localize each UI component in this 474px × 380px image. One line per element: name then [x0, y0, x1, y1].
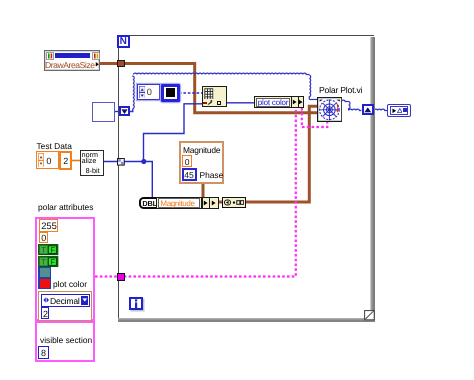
numeric constant 0 (blue) — [137, 84, 160, 100]
for loop border: bottom gray bar — [118, 318, 376, 322]
for loop border: right gray bar — [370, 37, 375, 322]
plot color label — [53, 279, 87, 289]
wire: picture constant to left shift register (blue) — [114, 111, 119, 113]
picture indicator terminal — [387, 104, 411, 117]
DrawAreaSize slider right glyph — [92, 52, 100, 60]
right shift register (up arrow) — [362, 104, 375, 115]
inner cluster tan frame — [38, 291, 92, 321]
teal color box — [40, 268, 50, 277]
tunnel: polar attributes through loop border (magenta) — [117, 273, 125, 281]
wire: junction up-branch to pixel subVI lower input (blue) — [144, 104, 203, 162]
plot color unbundle node — [254, 96, 304, 108]
DrawAreaSize slider bar — [55, 53, 90, 59]
wire: pixel subVI to plot color node (blue) — [227, 102, 254, 104]
wire: bundle to replace-array node (brown) — [217, 201, 223, 204]
node junction dot — [141, 159, 146, 164]
boolean constant 1 — [38, 244, 58, 255]
subVI: draw pixmap icon — [202, 86, 227, 107]
svg-text:T: T — [42, 258, 47, 267]
Magnitude/Phase cluster constant — [179, 141, 225, 184]
0 numeric constant — [39, 232, 48, 243]
wire: colorbox to pixel subVI (blue dashed) — [179, 92, 202, 94]
wire: picture wire horizontal run to Polar Plot.vi (scallop blue) — [134, 73, 310, 74]
polar attributes label — [38, 202, 93, 212]
color box constant (black) — [161, 84, 180, 102]
Decimal ring dropdown — [41, 294, 90, 307]
left shift register (down arrow) — [119, 106, 131, 116]
visible section label — [40, 335, 92, 345]
wire: normalize output through tunnel to junction (blue) — [104, 161, 144, 163]
for loop count terminal N — [117, 35, 130, 48]
DrawAreaSize cluster control — [44, 50, 100, 71]
Polar Plot.vi icon — [317, 97, 342, 122]
2 numeric constant (blue) — [41, 307, 49, 319]
Polar Plot.vi label — [319, 85, 362, 95]
for loop iteration terminal i — [129, 297, 143, 311]
normalize 8-bit subVI — [80, 150, 104, 176]
DrawAreaSize text — [45, 60, 95, 70]
polar attributes cluster border (pink) — [35, 217, 95, 322]
bundle by name node (Magnitude) — [156, 197, 219, 210]
wire: junction down-branch to DBL conversion (blue) — [144, 162, 153, 198]
color box pair frame (blue) — [38, 267, 51, 290]
red color box (plot color) — [40, 279, 50, 288]
boolean constant 2 — [38, 256, 58, 267]
255 numeric constant — [39, 219, 58, 232]
visible section cluster border (pink) — [35, 321, 95, 362]
tunnel: test data through loop border (checkered) — [117, 158, 125, 166]
svg-text:F: F — [51, 246, 56, 255]
wire: plot color value to Polar Plot.vi bottom input (pink dashed) — [302, 108, 328, 127]
8 numeric constant (blue) — [38, 346, 49, 359]
DBL conversion bullet — [139, 197, 162, 209]
for loop grow handle bottom-right — [364, 310, 375, 321]
wire: Magnitude cluster to Bundle node (brown) — [202, 183, 205, 198]
svg-text:F: F — [51, 258, 56, 267]
wire: replace-array output up to Polar Plot.vi top input (brown) — [245, 106, 317, 202]
tunnel: brown wire through loop border — [117, 60, 125, 68]
wire: right shift register to picture indicator (scallop blue) — [374, 109, 387, 110]
Test Data array index/element control — [36, 151, 59, 169]
svg-text:T: T — [42, 246, 47, 255]
wire: polar attributes cluster to plot color node (pink dashed) — [95, 108, 296, 277]
empty picture constant — [92, 102, 115, 122]
for loop border: left — [118, 35, 119, 319]
wire: picture wire shift register up (scallop blue) — [133, 76, 134, 109]
wire: picture wire down into Polar Plot.vi top-left input — [309, 75, 310, 100]
wire: Polar Plot.vi picture out (scallop blue) — [342, 100, 349, 101]
wire: Test Data to normalize (orange) — [72, 160, 81, 162]
replace array subset node — [222, 197, 247, 208]
Test Data label — [37, 141, 72, 151]
DrawAreaSize slider left glyph — [46, 52, 54, 60]
for loop border: top — [118, 35, 374, 36]
wire: DrawAreaSize cluster wire (brown) to Polar Plot.vi mid input — [100, 64, 317, 113]
